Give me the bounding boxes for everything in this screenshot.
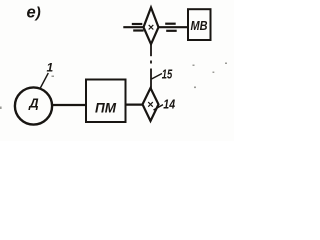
top gear cross mark [149,25,154,30]
svg-text:е): е) [27,3,41,21]
svg-text:1: 1 [47,61,54,75]
wire: top gear to box МВ [159,26,189,28]
svg-text:14: 14 [163,97,175,112]
leader line for designator 1 [40,73,49,89]
box МВ [188,9,211,40]
scan noise specks [0,63,227,110]
coupling (left, double-bar symbol) [132,24,144,31]
shaft 15 (dash-dot center line) [150,44,152,89]
leader line for designator 15 [152,74,163,80]
svg-text:15: 15 [162,66,173,81]
bevel gear pair 14 (diamond symbol) [143,88,159,121]
svg-text:Д: Д [28,96,39,111]
svg-text:ПМ: ПМ [95,99,116,115]
wire: box ПМ to bevel gear 14 [127,103,144,105]
svg-text:МВ: МВ [191,18,208,33]
box ПМ [86,80,126,123]
motor Д [15,87,52,124]
wire: left shaft into top gear [123,26,143,28]
coupling (right, double-bar symbol) [165,24,177,31]
gear 14 cross mark [148,102,153,107]
bevel gear pair 15 (top diamond symbol) [144,8,159,45]
leader line for designator 14 [154,105,164,110]
wire: motor Д to box ПМ [52,104,86,106]
